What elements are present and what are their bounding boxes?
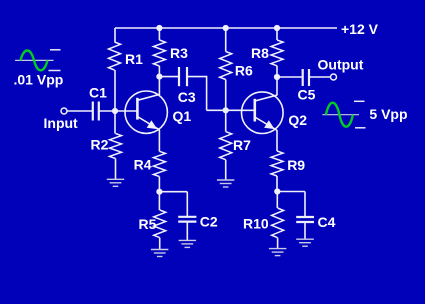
capacitor C1	[93, 102, 99, 121]
svg-text:R10: R10	[243, 216, 269, 232]
svg-text:Q1: Q1	[173, 108, 192, 124]
svg-text:R2: R2	[91, 137, 109, 153]
transistor Q1	[125, 91, 167, 133]
wire C2 to ground	[186, 222, 188, 241]
wire base node to R7	[225, 110, 227, 131]
wire R8 to collector node	[276, 66, 278, 77]
resistor R5	[154, 210, 166, 238]
svg-text:R5: R5	[139, 216, 157, 232]
resistor R1	[109, 42, 121, 70]
wire R6 to base node	[225, 80, 227, 111]
wire R2 to ground	[115, 159, 117, 180]
wire R7 to ground	[225, 160, 227, 180]
marker output min	[355, 127, 366, 129]
resistor R6	[220, 52, 232, 80]
resistor R10	[272, 208, 284, 238]
node emitter2 junction	[274, 188, 280, 194]
wire C4 to ground	[304, 222, 306, 239]
input terminal	[61, 108, 67, 114]
capacitor C2	[178, 217, 196, 222]
wire R1 to base node	[114, 70, 116, 111]
waveform axis output	[322, 114, 359, 116]
wire input to C1	[67, 110, 92, 112]
wire C1 to Q1 base	[99, 110, 138, 112]
svg-text:C4: C4	[318, 214, 336, 230]
wire emitter node to R5	[158, 192, 160, 210]
wire R5 to ground	[159, 238, 161, 250]
wire C5 to output	[309, 76, 331, 78]
ground R2	[107, 178, 124, 180]
ground C2	[179, 239, 197, 241]
capacitor C5	[303, 69, 309, 86]
wire rail to R3	[158, 28, 160, 40]
svg-text:R9: R9	[287, 157, 305, 173]
resistor R7	[220, 132, 232, 160]
resistor R3	[153, 40, 165, 66]
wire collector node to C3	[159, 76, 179, 78]
transistor Q2	[241, 92, 283, 134]
wire rail to R1	[114, 28, 116, 42]
node rail-R6 junction	[223, 25, 229, 31]
ground R7	[217, 179, 235, 181]
marker input min	[49, 70, 61, 72]
node collector1 junction	[156, 74, 162, 80]
resistor R2	[110, 134, 122, 159]
wire C3 to corner	[187, 76, 207, 78]
wire rail to R6	[225, 28, 227, 52]
node emitter1 junction	[156, 189, 162, 195]
wire Q1 emitter	[158, 130, 160, 152]
capacitor C4	[296, 217, 314, 222]
node base1 junction	[112, 108, 118, 114]
svg-text:R1: R1	[125, 51, 143, 67]
node collector2 junction	[274, 74, 280, 80]
svg-text:5 Vpp: 5 Vpp	[369, 106, 407, 122]
svg-text:Input: Input	[44, 115, 79, 131]
svg-text:R4: R4	[134, 156, 152, 172]
node rail-R8 junction	[274, 25, 280, 31]
wire emitter node to R10	[276, 192, 278, 209]
output terminal	[331, 74, 337, 80]
svg-text:Q2: Q2	[288, 112, 307, 128]
wire emitter node to C4	[277, 191, 305, 193]
node rail-R3 junction	[156, 25, 162, 31]
wire down to C2	[186, 192, 188, 217]
wire R4 to emitter node	[158, 177, 160, 192]
node base2 junction	[223, 107, 229, 113]
wire to Q2 base node	[207, 109, 226, 111]
svg-text:+12 V: +12 V	[341, 21, 379, 37]
wire +12V supply rail	[115, 27, 337, 29]
sine wave output	[326, 103, 353, 127]
wire base node to Q2	[226, 109, 255, 111]
resistor R4	[153, 151, 165, 176]
wire emitter node to C2	[159, 191, 187, 193]
ground R10	[269, 248, 287, 250]
svg-text:C5: C5	[298, 87, 316, 103]
wire R10 to ground	[277, 238, 279, 249]
wire Q1 collector	[158, 77, 160, 95]
wire down to C4	[304, 192, 306, 218]
wire Q2 collector	[276, 77, 278, 96]
svg-text:R8: R8	[251, 45, 269, 61]
wire rail to R8	[276, 28, 278, 40]
ground C4	[296, 238, 314, 240]
wire R3 to collector node	[158, 66, 160, 77]
svg-text:Output: Output	[318, 57, 364, 73]
sine wave input	[21, 51, 48, 71]
marker output max	[354, 100, 365, 102]
svg-text:.01 Vpp: .01 Vpp	[14, 72, 64, 88]
svg-text:R6: R6	[235, 63, 253, 79]
wire R9 to emitter node	[276, 176, 278, 192]
wire collector node to C5	[277, 76, 303, 78]
ground R5	[151, 249, 169, 251]
waveform axis input	[15, 59, 54, 61]
marker input max	[50, 49, 61, 51]
svg-text:C3: C3	[178, 89, 196, 105]
wire corner down	[206, 76, 208, 111]
svg-text:R3: R3	[170, 45, 188, 61]
svg-text:R7: R7	[233, 137, 251, 153]
svg-text:C1: C1	[89, 85, 107, 101]
svg-text:C2: C2	[200, 213, 218, 229]
wire base node to R2	[114, 111, 116, 134]
resistor R8	[271, 40, 283, 66]
wire Q2 emitter	[276, 130, 278, 151]
capacitor C3	[179, 67, 187, 86]
resistor R9	[271, 151, 283, 176]
